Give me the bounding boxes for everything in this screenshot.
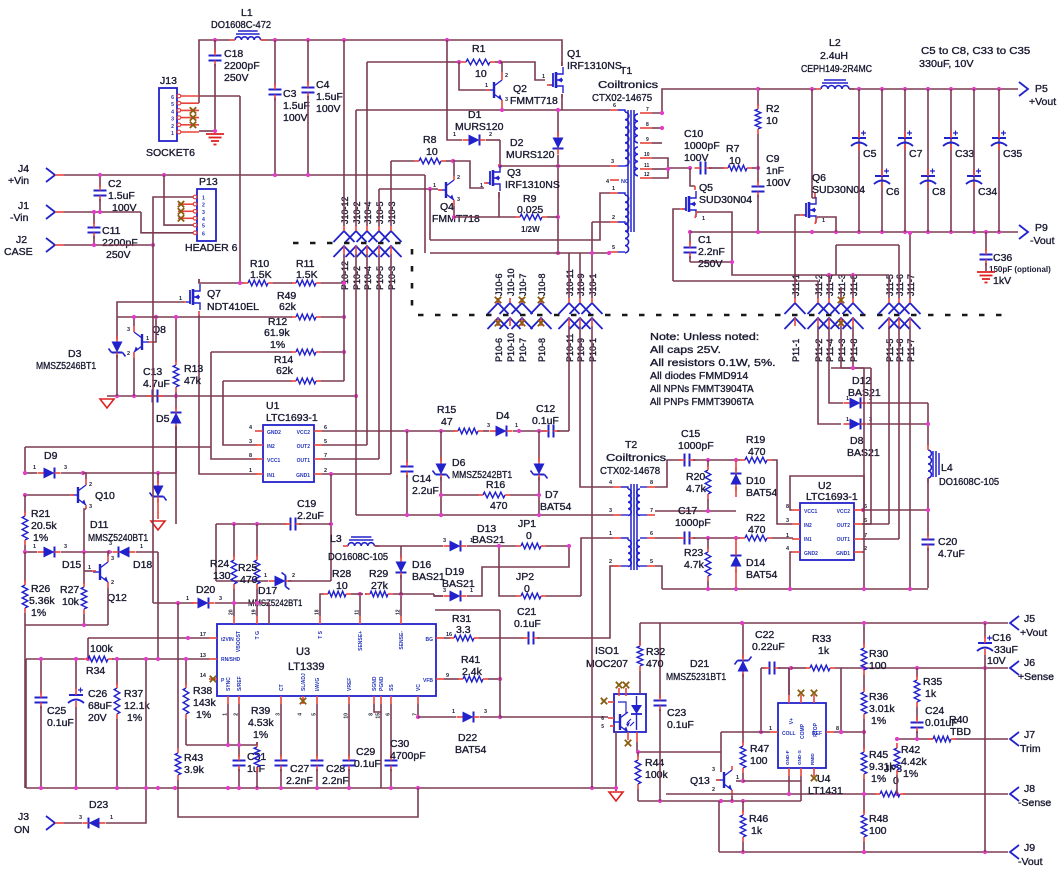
svg-text:LT1431: LT1431: [808, 785, 843, 797]
port J2 CASE: [4, 234, 55, 258]
wire OUT1 to P11-6 col: [862, 538, 899, 540]
divider col 864 d: [861, 810, 888, 852]
ic U3 LT1339: [217, 624, 436, 696]
svg-text:ISO1: ISO1: [595, 645, 619, 657]
wire R1 left feed: [367, 61, 447, 63]
wire col P10-1: [591, 326, 593, 788]
port J3 ON: [14, 811, 55, 836]
wire +Vout rail: [759, 87, 1018, 91]
svg-text:P11-2: P11-2: [814, 339, 824, 362]
svg-text:D5: D5: [156, 413, 170, 425]
svg-text:C22: C22: [755, 629, 774, 641]
capacitor C20: [922, 508, 965, 588]
svg-text:100V: 100V: [684, 152, 709, 164]
svg-text:1.5K: 1.5K: [250, 269, 272, 281]
svg-text:SUD30N04: SUD30N04: [699, 194, 752, 206]
svg-text:C21: C21: [517, 606, 536, 618]
svg-text:20V: 20V: [88, 712, 107, 724]
wire R12 link row: [25, 446, 211, 448]
wire Q12 emitter: [107, 588, 109, 625]
svg-text:P5: P5: [1035, 83, 1048, 95]
svg-text:100V: 100V: [283, 112, 308, 124]
svg-text:R29: R29: [369, 568, 388, 580]
wire row 381: [223, 380, 292, 382]
wire row 352: [211, 351, 292, 353]
svg-text:C17: C17: [678, 505, 697, 517]
svg-text:3: 3: [171, 117, 174, 123]
svg-text:SS: SS: [389, 684, 395, 691]
wire Q5 source: [690, 212, 732, 262]
svg-text:J10-7: J10-7: [518, 273, 528, 296]
wire Q12 collector: [108, 552, 109, 556]
svg-text:C24: C24: [925, 705, 944, 717]
capacitor C12: [532, 403, 569, 438]
svg-text:P10-1: P10-1: [588, 338, 598, 362]
svg-text:GND1: GND1: [296, 473, 310, 479]
svg-text:Q12: Q12: [107, 592, 127, 604]
svg-text:SL/ADJ: SL/ADJ: [301, 673, 307, 691]
svg-text:13: 13: [200, 653, 206, 659]
svg-text:68uF: 68uF: [88, 700, 112, 712]
svg-text:D9: D9: [44, 450, 58, 462]
svg-text:1: 1: [846, 417, 849, 423]
wire J11-7 col: [908, 231, 912, 298]
svg-text:2.4k: 2.4k: [462, 666, 483, 678]
wire Q8 collector: [133, 317, 135, 326]
svg-text:5: 5: [601, 724, 604, 730]
svg-text:0.1uF: 0.1uF: [47, 717, 74, 729]
svg-text:3: 3: [484, 709, 487, 715]
svg-text:R15: R15: [437, 404, 456, 416]
svg-text:R37: R37: [124, 688, 143, 700]
svg-text:T1: T1: [620, 65, 632, 77]
svg-text:P10-8: P10-8: [537, 338, 547, 362]
svg-text:R33: R33: [812, 633, 831, 645]
svg-text:470: 470: [646, 658, 664, 670]
capacitor C18: [209, 40, 260, 131]
svg-text:MMSZ5246BT1: MMSZ5246BT1: [36, 360, 96, 372]
bus arrows J11 P11: [785, 297, 921, 329]
svg-text:C35: C35: [1003, 148, 1022, 160]
svg-text:J10-6: J10-6: [494, 273, 504, 296]
svg-text:1%: 1%: [871, 715, 886, 727]
svg-text:D16: D16: [412, 559, 431, 571]
wire U2 VCC1 hat: [790, 476, 864, 510]
svg-text:4.7uF: 4.7uF: [143, 378, 170, 390]
wire P11-3 P11-8 join: [841, 366, 864, 370]
svg-text:L2: L2: [829, 37, 841, 49]
svg-text:C12: C12: [536, 403, 555, 415]
wire Q8 base: [153, 315, 158, 342]
svg-text:J5: J5: [1024, 613, 1035, 625]
svg-text:R41: R41: [461, 654, 480, 666]
wire L2 left drop: [811, 89, 813, 198]
wire CASE down col: [152, 245, 154, 603]
wire D5 col to D9 row: [175, 427, 177, 473]
svg-text:1k: 1k: [751, 825, 763, 837]
svg-text:1: 1: [186, 596, 189, 602]
label R34: [86, 643, 114, 677]
svg-text:3: 3: [487, 423, 490, 429]
resistor R40: [928, 714, 971, 742]
svg-text:250V: 250V: [106, 249, 131, 261]
svg-text:HEADER 6: HEADER 6: [185, 242, 238, 254]
svg-text:7: 7: [650, 508, 653, 514]
wire P11-6 col down: [898, 326, 900, 539]
resistor R21: [22, 495, 57, 552]
diode D5: [156, 396, 182, 524]
svg-text:Trim: Trim: [1020, 743, 1041, 755]
svg-text:3: 3: [64, 465, 67, 471]
svg-text:OUT1: OUT1: [837, 537, 851, 543]
capacitor C19: [216, 498, 331, 531]
svg-text:3: 3: [249, 439, 252, 445]
wire +Vin rail: [55, 173, 425, 177]
svg-text:1%: 1%: [33, 532, 48, 544]
note unless noted: [650, 331, 776, 408]
svg-text:3.3: 3.3: [456, 624, 471, 636]
ground under ISO1: [609, 792, 623, 801]
wire J13 pin6 row: [199, 95, 240, 97]
svg-text:VBOOST: VBOOST: [236, 631, 242, 652]
ground at J13: [206, 134, 224, 145]
svg-text:R21: R21: [31, 508, 50, 520]
svg-text:P9: P9: [1035, 222, 1048, 234]
svg-text:3: 3: [609, 508, 612, 514]
wire U4 COLL: [721, 731, 770, 733]
transistor Q1 IRF1310NS: [542, 48, 622, 98]
wire JP1 to D19 pin1: [467, 546, 569, 596]
wire Q13 emitter drop2: [731, 796, 733, 801]
svg-text:DO1608C-105: DO1608C-105: [939, 476, 999, 488]
resistor R46: [740, 801, 768, 852]
label D17: [248, 585, 302, 609]
wire U4 GNDS col: [800, 776, 802, 801]
wire D18 col down: [157, 552, 159, 659]
svg-text:D12: D12: [852, 375, 871, 387]
wire SGND col: [380, 712, 382, 788]
resistor R41: [444, 654, 502, 682]
wire ISO feed row: [500, 716, 608, 718]
svg-text:CTX02-14678: CTX02-14678: [600, 465, 660, 477]
wire Q10 collector: [83, 473, 86, 479]
capacitor C27: [275, 704, 313, 788]
resistor R31: [444, 613, 524, 641]
svg-text:R40: R40: [949, 714, 968, 726]
svg-text:1: 1: [609, 531, 612, 537]
wire P11-8 link: [831, 367, 871, 369]
wire U2 IN2 feed: [786, 523, 792, 525]
svg-text:D4: D4: [496, 410, 510, 422]
wire J7 row: [895, 737, 1008, 741]
svg-text:R34: R34: [86, 665, 105, 677]
svg-text:100V: 100V: [766, 177, 791, 189]
svg-text:250V: 250V: [224, 72, 249, 84]
svg-text:-Vin: -Vin: [10, 212, 29, 224]
svg-text:1000pF: 1000pF: [678, 440, 714, 452]
wire col J10-2: [355, 110, 357, 515]
wire L4 to VCC2: [861, 478, 928, 512]
x marks ISO1: [601, 682, 631, 746]
svg-text:C34: C34: [978, 186, 997, 198]
label U2: [806, 491, 858, 503]
svg-text:P10-3: P10-3: [387, 266, 397, 290]
zener D7 BAT54: [531, 431, 572, 515]
svg-text:R39: R39: [251, 705, 270, 717]
svg-text:ON: ON: [14, 824, 30, 836]
svg-text:BAS21: BAS21: [412, 571, 445, 583]
svg-text:CEPH149-2R4MC: CEPH149-2R4MC: [801, 63, 872, 75]
ic U3 pin stubs: [200, 609, 452, 718]
svg-text:47: 47: [441, 416, 453, 428]
svg-text:R38: R38: [193, 685, 212, 697]
transistor Q10: [70, 479, 115, 510]
resistor R44: [635, 752, 641, 801]
ic U1 LTC1693-1: [249, 400, 327, 482]
svg-text:D23: D23: [89, 799, 108, 811]
svg-text:GND2: GND2: [267, 430, 281, 436]
svg-text:9: 9: [446, 673, 449, 679]
header P13: [185, 176, 238, 254]
port J8 -Sense: [1010, 783, 1051, 809]
svg-text:250V: 250V: [698, 258, 723, 270]
label D21: [666, 658, 726, 683]
svg-text:D19: D19: [445, 566, 464, 578]
svg-text:U4: U4: [817, 773, 831, 785]
svg-text:R48: R48: [869, 813, 888, 825]
wire col J10-5: [378, 189, 380, 459]
capacitor C34: [966, 89, 997, 232]
port J9 -Vout: [1010, 842, 1043, 868]
svg-text:All NPNs FMMT3904TA: All NPNs FMMT3904TA: [650, 383, 754, 395]
resistor R14: [274, 354, 344, 384]
svg-text:C27: C27: [290, 763, 309, 775]
svg-text:Q8: Q8: [152, 324, 166, 336]
wire U2 outputs b: [862, 368, 871, 524]
wire R8 to Q3 gate: [453, 161, 484, 188]
svg-text:PGND: PGND: [379, 676, 385, 691]
label R32: [646, 646, 665, 670]
svg-text:J10-4: J10-4: [363, 201, 373, 224]
svg-text:2: 2: [111, 580, 114, 586]
resistor R33: [791, 633, 843, 734]
wire C23 feed2: [659, 623, 661, 698]
wire sgnd loop B: [178, 788, 418, 817]
svg-text:1: 1: [88, 565, 91, 571]
wire T1 pin2 col: [591, 222, 593, 253]
capacitor C13: [143, 366, 170, 403]
wire J9 row: [719, 850, 1008, 854]
svg-text:J11-5: J11-5: [885, 274, 895, 296]
wire T2 pin7 row: [655, 509, 736, 513]
capacitor C16: [977, 623, 1018, 852]
svg-text:1000pF: 1000pF: [675, 517, 711, 529]
wire row 275: [730, 260, 889, 277]
svg-text:8: 8: [786, 504, 789, 510]
wire left col top: [24, 447, 26, 473]
wire Q2 emitter: [501, 108, 503, 110]
wire R38 col: [183, 659, 216, 745]
diode D20: [153, 584, 269, 609]
svg-text:2: 2: [609, 559, 612, 565]
divider col 864 a: [861, 623, 888, 690]
svg-text:5: 5: [324, 439, 327, 445]
svg-text:2.2nF: 2.2nF: [322, 775, 349, 787]
ic U4 pin stubs: [769, 695, 839, 776]
wire U2 GND2: [790, 552, 792, 589]
svg-text:R28: R28: [332, 568, 351, 580]
svg-text:I/AVG: I/AVG: [315, 678, 321, 691]
wire T1 pin3 row: [500, 165, 610, 167]
svg-text:16: 16: [446, 632, 452, 638]
svg-text:All PNPs FMMT3906TA: All PNPs FMMT3906TA: [650, 396, 754, 408]
wire J13 pin1 to gnd: [199, 129, 217, 133]
wire T1 sec top group: [652, 89, 759, 143]
svg-text:J6: J6: [1024, 657, 1035, 669]
resistor R35: [914, 668, 942, 720]
wire D17 feed col: [215, 524, 217, 581]
diode D4: [483, 410, 546, 437]
wire D1 to Q3 drain: [498, 140, 502, 168]
wire GND1 drop to D17: [329, 474, 333, 581]
wire P11-8 down: [852, 326, 854, 368]
svg-text:2: 2: [127, 351, 130, 357]
svg-text:0.025: 0.025: [517, 204, 543, 216]
svg-text:0: 0: [526, 530, 532, 542]
svg-text:10V: 10V: [987, 655, 1006, 667]
svg-text:4: 4: [298, 713, 304, 716]
wire J11-3 stub: [840, 287, 842, 298]
svg-text:1.5uF: 1.5uF: [283, 100, 310, 112]
svg-text:1.5uF: 1.5uF: [108, 190, 135, 202]
svg-text:R23: R23: [684, 547, 703, 559]
svg-text:1: 1: [769, 726, 772, 732]
wire D12 right: [867, 402, 928, 404]
svg-text:SUD30N04: SUD30N04: [812, 184, 865, 196]
svg-text:C1: C1: [698, 234, 712, 246]
svg-text:100k: 100k: [645, 769, 669, 781]
diode D16 BAS21: [396, 546, 445, 594]
svg-text:1: 1: [786, 533, 789, 539]
resistor R24: [210, 524, 237, 616]
capacitor C30: [385, 704, 426, 788]
wire R1 to Q1 gate: [500, 62, 545, 80]
jumper JP1: [516, 518, 571, 549]
svg-text:6: 6: [613, 103, 616, 109]
svg-text:1: 1: [140, 544, 143, 550]
svg-text:BG: BG: [426, 637, 434, 643]
svg-text:J11-2: J11-2: [814, 274, 824, 296]
svg-text:17: 17: [200, 632, 206, 638]
capacitor C2: [94, 175, 137, 214]
svg-text:MURS120: MURS120: [506, 149, 555, 161]
diode D9: [23, 450, 176, 479]
svg-text:1: 1: [542, 74, 545, 80]
wire Q3 source: [499, 192, 516, 217]
svg-text:IRF1310NS: IRF1310NS: [505, 179, 560, 191]
svg-text:D1: D1: [468, 109, 482, 121]
svg-text:GND1: GND1: [836, 551, 850, 557]
bus labels J11 P11: [791, 274, 916, 362]
wire Q5 gate: [673, 209, 680, 281]
svg-text:2.2nF: 2.2nF: [698, 246, 725, 258]
svg-text:2.2nF: 2.2nF: [286, 775, 313, 787]
capacitor C22: [752, 629, 793, 675]
svg-text:4.53k: 4.53k: [248, 717, 274, 729]
resistor R1: [447, 43, 502, 80]
svg-text:FMMT718: FMMT718: [510, 95, 558, 107]
svg-text:Coiltronics: Coiltronics: [606, 452, 666, 464]
zener D21 MMSZ5231BT1: [735, 655, 752, 744]
svg-text:C11: C11: [102, 225, 121, 237]
svg-text:Q3: Q3: [507, 167, 521, 179]
svg-text:R8: R8: [423, 134, 437, 146]
svg-text:L1: L1: [241, 7, 253, 19]
ic U2 LTC1693-1: [800, 480, 854, 560]
capacitor C9: [752, 153, 791, 232]
svg-text:C16: C16: [992, 632, 1011, 644]
resistor R13: [173, 317, 203, 396]
svg-text:C14: C14: [412, 473, 431, 485]
svg-text:3.9k: 3.9k: [184, 764, 205, 776]
svg-text:D2: D2: [510, 137, 524, 149]
svg-text:t2VIN: t2VIN: [221, 637, 234, 643]
port J6 +Sense: [1010, 657, 1054, 683]
svg-text:D10: D10: [746, 475, 765, 487]
svg-text:1: 1: [202, 196, 205, 202]
svg-text:6: 6: [650, 531, 653, 537]
svg-text:OUT2: OUT2: [837, 523, 851, 529]
diode D15: [23, 544, 112, 571]
wire C22 left drop: [759, 668, 763, 734]
svg-text:REF: REF: [812, 731, 822, 737]
svg-text:0.1uF: 0.1uF: [514, 618, 541, 630]
svg-text:J11-1: J11-1: [791, 274, 801, 296]
svg-text:4.42k: 4.42k: [901, 756, 927, 768]
svg-text:J10-1: J10-1: [588, 273, 598, 296]
wire Q4 base row: [379, 187, 438, 191]
wire node to JP2: [499, 546, 516, 596]
svg-text:SENSE+: SENSE+: [358, 631, 364, 651]
resistor R42: [894, 743, 927, 794]
svg-text:D11: D11: [90, 519, 109, 531]
wire ground rail A: [26, 786, 616, 790]
svg-text:1%: 1%: [903, 768, 918, 780]
svg-text:All resistors 0.1W, 5%.: All resistors 0.1W, 5%.: [650, 357, 776, 369]
svg-text:2.2uF: 2.2uF: [412, 485, 439, 497]
svg-text:10: 10: [766, 115, 778, 127]
svg-text:330uF, 10V: 330uF, 10V: [919, 58, 974, 70]
port J4 +Vin: [8, 163, 55, 187]
diode D1 MURS120: [447, 40, 504, 146]
wire U4 GNDF col: [788, 776, 790, 794]
svg-text:LTC1693-1: LTC1693-1: [266, 412, 318, 424]
bus labels group2: [494, 268, 598, 362]
svg-text:5: 5: [612, 245, 615, 251]
svg-text:S/REF: S/REF: [237, 676, 243, 691]
dashed partition left: [293, 243, 412, 309]
capacitor C7: [897, 89, 923, 232]
transistor Q13: [716, 766, 732, 796]
svg-text:P13: P13: [199, 176, 218, 188]
svg-text:3: 3: [219, 596, 222, 602]
jumper JP3: [875, 763, 905, 797]
svg-text:VCC1: VCC1: [804, 509, 818, 515]
svg-text:3: 3: [202, 210, 205, 216]
x marks U4: [798, 690, 817, 781]
wire SENSEm col: [399, 592, 403, 616]
svg-text:0: 0: [893, 775, 899, 787]
